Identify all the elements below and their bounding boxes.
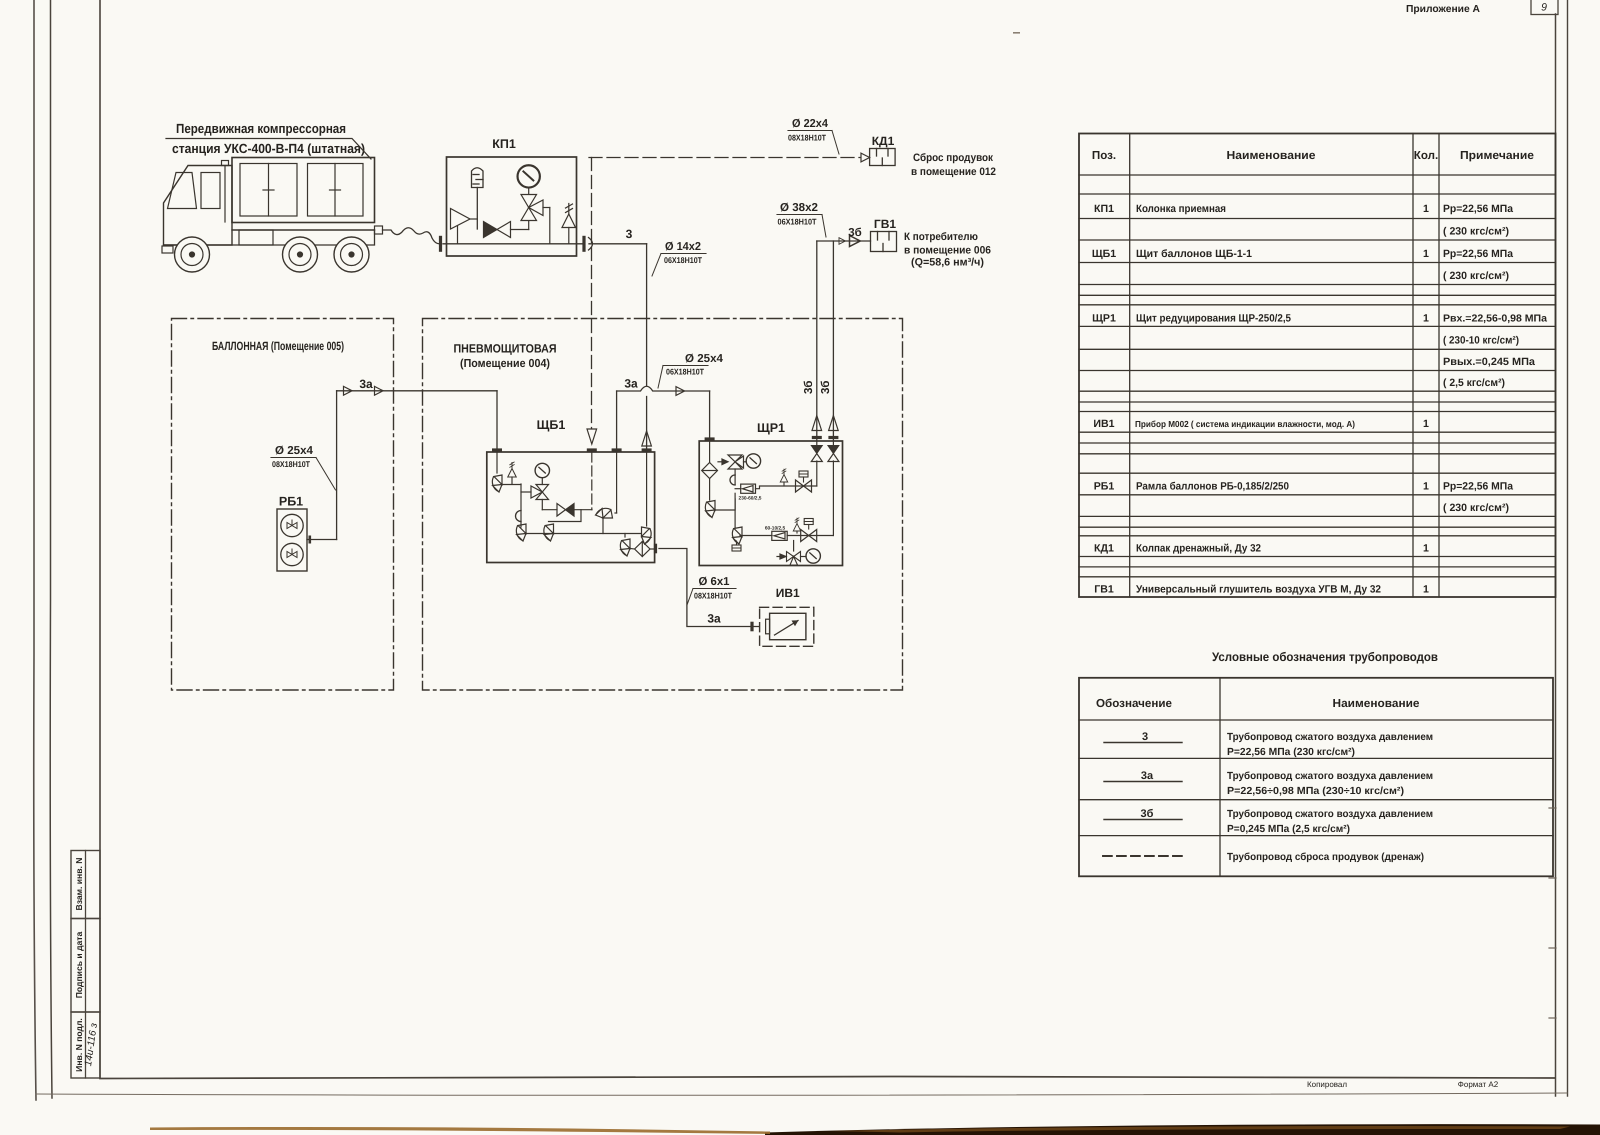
svg-text:Ø 25x4: Ø 25x4	[275, 445, 314, 457]
drain label Ø 22x4	[788, 118, 839, 154]
svg-text:Подпись и дата: Подпись и дата	[74, 931, 84, 998]
3а flow arrows	[344, 386, 353, 395]
parts table row ГВ1	[1094, 584, 1429, 596]
3а flow arrow mid	[676, 387, 685, 396]
svg-text:3а: 3а	[707, 612, 721, 626]
svg-text:Щит редуцирования ЩР-250/2,5: Щит редуцирования ЩР-250/2,5	[1136, 313, 1291, 325]
svg-text:1: 1	[1423, 584, 1429, 596]
ЩБ1 riser 3	[646, 452, 648, 526]
ЩР1 riser 1 inside	[816, 461, 818, 486]
ЩБ1 angle valve 6	[642, 527, 652, 544]
svg-text:1: 1	[1423, 248, 1429, 260]
svg-text:Обозначение: Обозначение	[1096, 697, 1173, 710]
ЩР1 stage1 relief	[780, 469, 788, 486]
parts table row ЩБ1	[1092, 248, 1513, 282]
scan bottom dark band right	[765, 1124, 1600, 1135]
ЩБ1 cap semicircle	[516, 511, 522, 522]
Ø 6x1 label	[687, 576, 736, 605]
ИВ1 wall pass	[750, 622, 753, 632]
3а pipe down into ЩР1	[709, 391, 711, 441]
КП1 gauge	[518, 165, 540, 187]
parts table row РБ1	[1094, 481, 1513, 515]
svg-text:РБ1: РБ1	[1094, 481, 1115, 493]
ЩР1 stage2 shutoff	[801, 530, 817, 542]
stamp column box: Подпись и дата	[71, 919, 100, 1013]
svg-text:КП1: КП1	[1094, 203, 1114, 215]
legend row 3	[1104, 731, 1433, 758]
chassis bottom line	[164, 230, 375, 245]
svg-text:РБ1: РБ1	[279, 495, 303, 509]
ЩБ1 inlet pipe	[496, 452, 498, 473]
КП1 outlet wall pass with socket arc	[582, 236, 585, 252]
arrow into КД1	[861, 153, 870, 162]
svg-text:Трубопровод сжатого воздуха да: Трубопровод сжатого воздуха давлением	[1227, 732, 1433, 743]
svg-text:1: 1	[1423, 313, 1429, 325]
svg-text:9: 9	[1541, 2, 1547, 14]
svg-text:Передвижная компрессорная: Передвижная компрессорная	[176, 121, 346, 136]
svg-text:Ø 25x4: Ø 25x4	[685, 353, 724, 365]
svg-text:Рвых.=0,245 МПа: Рвых.=0,245 МПа	[1443, 356, 1535, 368]
right edge binding ticks	[1549, 808, 1556, 1018]
svg-text:Рр=22,56 МПа: Рр=22,56 МПа	[1443, 248, 1513, 260]
svg-text:Рамла баллонов РБ-0,185/2/250: Рамла баллонов РБ-0,185/2/250	[1136, 481, 1289, 493]
hose from truck to КП1	[383, 228, 441, 244]
svg-text:Трубопровод сброса продувок (д: Трубопровод сброса продувок (дренаж)	[1227, 852, 1424, 863]
3б riser flow arrows	[812, 416, 822, 431]
ЩБ1 bottle panel box	[487, 452, 655, 563]
КП1 shutoff valve (filled left)	[484, 221, 529, 238]
svg-text:КД1: КД1	[1094, 543, 1114, 555]
svg-text:Трубопровод сжатого воздуха да: Трубопровод сжатого воздуха давлением	[1227, 771, 1433, 782]
ЩР1 reduction panel box	[699, 441, 842, 566]
svg-text:Взам. инв. N: Взам. инв. N	[74, 857, 84, 910]
pipe to ИВ1 from ЩБ1	[659, 549, 759, 627]
wall pass into КП1	[439, 236, 442, 252]
parts table row КД1	[1094, 543, 1429, 555]
van body	[232, 158, 375, 223]
ЩБ1 outlet filter diamond	[630, 542, 655, 557]
svg-text:ЩР1: ЩР1	[757, 421, 785, 435]
svg-text:ЩБ1: ЩБ1	[537, 418, 566, 432]
svg-text:( 2,5 кгс/см²): ( 2,5 кгс/см²)	[1443, 377, 1505, 389]
van window left	[240, 164, 297, 217]
svg-text:КД1: КД1	[872, 134, 895, 148]
3б pipe to consumer	[817, 240, 871, 242]
ЩБ1 gauge	[535, 463, 549, 477]
ЩР1 wire valve1 down	[734, 469, 736, 485]
svg-text:Копировал: Копировал	[1307, 1080, 1347, 1089]
ЩР1 stage2 pilot	[804, 519, 813, 525]
skirt box	[239, 230, 273, 245]
ЩР1 bottom gauge line	[777, 541, 806, 566]
ЩБ1 branch down from shutoff	[549, 510, 582, 522]
svg-text:ИВ1: ИВ1	[1093, 418, 1114, 430]
svg-text:Приложение А: Приложение А	[1406, 4, 1481, 15]
svg-text:Условные обозначения трубопров: Условные обозначения трубопроводов	[1212, 650, 1438, 664]
svg-text:Ø 6x1: Ø 6x1	[699, 576, 731, 588]
ЩБ1 angle valve 5	[624, 534, 626, 538]
svg-text:1: 1	[1423, 543, 1429, 555]
ЩР1 stage1 shutoff	[796, 480, 812, 492]
svg-text:06Х18Н10Т: 06Х18Н10Т	[666, 367, 704, 377]
small stray mark	[1013, 32, 1020, 34]
КД1 drain cap	[870, 149, 896, 166]
ЩБ1 wire to relief	[502, 484, 521, 486]
svg-text:Наименование: Наименование	[1227, 149, 1317, 162]
svg-text:(Помещение 004): (Помещение 004)	[460, 357, 550, 370]
svg-text:08Х18Н10Т: 08Х18Н10Т	[694, 591, 732, 601]
svg-text:Поз.: Поз.	[1092, 149, 1116, 162]
ЩБ1 relief valve	[508, 462, 517, 484]
svg-text:Ø 14x2: Ø 14x2	[665, 241, 701, 253]
svg-text:БАЛЛОННАЯ (Помещение 005): БАЛЛОННАЯ (Помещение 005)	[212, 339, 344, 353]
svg-text:60-10/2,5: 60-10/2,5	[765, 526, 786, 532]
pipe 3а from РБ1	[307, 391, 497, 544]
page number box with 9	[1531, 0, 1558, 15]
ЩБ1 riser 2	[616, 452, 618, 513]
ЩБ1 angle valve 1	[492, 475, 502, 492]
Ø 25x4 label mid	[658, 353, 724, 388]
3б riser 2	[832, 241, 834, 441]
ЩР1 inlet filter diamond	[702, 441, 718, 500]
svg-text:Колпак дренажный, Ду 32: Колпак дренажный, Ду 32	[1136, 543, 1261, 555]
svg-text:Примечание: Примечание	[1460, 149, 1535, 162]
legend row 3а	[1104, 770, 1433, 797]
ЩР1 three-way valve 1 with arrow and gauge	[718, 455, 746, 469]
pipe 3 flow arrow up at ЩБ1 entry	[642, 431, 652, 446]
page bottom edge line	[36, 1093, 1567, 1095]
ЩБ1 shutoff valve (filled right)	[557, 504, 592, 517]
cab outline	[164, 166, 233, 246]
ЩБ1 angle valve 3	[544, 524, 554, 541]
svg-text:Рр=22,56 МПа: Рр=22,56 МПа	[1443, 481, 1513, 493]
ЩР1 shutoff top 2 (filled)	[828, 446, 839, 462]
stamp column box: Инв. N подл.	[71, 1012, 100, 1078]
svg-text:( 230 кгс/см²): ( 230 кгс/см²)	[1443, 270, 1509, 282]
svg-text:Кол.: Кол.	[1414, 149, 1438, 162]
КП1 relief valve	[562, 204, 576, 244]
svg-text:Наименование: Наименование	[1333, 697, 1421, 710]
legend table grid	[1079, 678, 1553, 877]
ЩР1 stage2 outlet wire	[787, 535, 833, 537]
КП1 check valve	[451, 209, 478, 244]
Ø 38x2 label	[777, 202, 826, 237]
svg-text:в помещение 006: в помещение 006	[904, 245, 991, 257]
svg-text:ЩР1: ЩР1	[1092, 313, 1116, 325]
КП1 moisture separator cylinder	[472, 168, 484, 229]
svg-text:ИВ1: ИВ1	[776, 586, 800, 600]
РБ1 bottle rack	[277, 509, 307, 571]
3б flow arrows to ГВ1	[839, 238, 845, 245]
pipe 3 label Ø 14x2	[652, 241, 706, 276]
frame left inner border	[99, 0, 101, 1078]
ЩР1 stage2 feed wire	[734, 493, 736, 528]
ЩР1 shutoff top 1 (filled)	[811, 446, 822, 462]
rear connector	[375, 226, 383, 234]
svg-text:Р=22,56 МПа (230 кгс/см²): Р=22,56 МПа (230 кгс/см²)	[1227, 747, 1355, 758]
svg-text:1: 1	[1423, 418, 1429, 430]
svg-text:Щит баллонов ЩБ-1-1: Щит баллонов ЩБ-1-1	[1136, 248, 1252, 260]
cab side window	[201, 173, 220, 209]
legend row drain	[1103, 852, 1424, 863]
svg-text:Прибор М002 ( система индикац: Прибор М002 ( система индикации влажност…	[1135, 419, 1355, 429]
van window right	[308, 164, 364, 217]
parts table row ЩР1	[1092, 313, 1547, 390]
legend row 3б	[1104, 808, 1433, 835]
ИВ1 humidity indicator	[760, 607, 814, 646]
ЩР1 regulator 1	[735, 484, 755, 493]
svg-text:Р=22,56÷0,98 МПа (230÷10 кгс/с: Р=22,56÷0,98 МПа (230÷10 кгс/см²)	[1227, 786, 1404, 797]
svg-text:08Х18Н10Т: 08Х18Н10Т	[788, 133, 826, 143]
legend header	[1096, 697, 1420, 710]
svg-text:( 230-10 кгс/см²): ( 230-10 кгс/см²)	[1443, 335, 1519, 347]
page outer edge line	[34, 0, 36, 1100]
svg-text:3б: 3б	[848, 227, 862, 239]
svg-text:ЩБ1: ЩБ1	[1092, 248, 1116, 260]
svg-text:06Х18Н10Т: 06Х18Н10Т	[664, 255, 702, 265]
ЩБ1 wire down	[520, 484, 522, 527]
ЩР1 stage1 outlet wire	[756, 486, 817, 489]
svg-text:Рвх.=22,56-0,98 МПа: Рвх.=22,56-0,98 МПа	[1443, 314, 1547, 325]
КП1 three-way valve	[521, 195, 550, 244]
ЩР1 angle valve stage2	[732, 527, 742, 544]
3а pipe down into ЩБ1	[496, 391, 498, 452]
scan bottom band left tail	[150, 1127, 770, 1134]
drain pipe vertical (dashed) down to ЩБ1	[591, 158, 593, 429]
frame left outer border	[50, 0, 52, 1098]
svg-text:Рр=22,56 МПа: Рр=22,56 МПа	[1443, 203, 1513, 215]
truck wheels	[175, 237, 370, 272]
windshield	[168, 173, 197, 209]
svg-text:3: 3	[1142, 731, 1148, 743]
ЩР1 stage2 pilot below	[732, 545, 741, 551]
svg-text:в помещение 012: в помещение 012	[911, 166, 996, 178]
pipe 3 horizontal from КП1	[589, 243, 647, 245]
svg-text:3б: 3б	[803, 381, 815, 395]
svg-text:( 230 кгс/см²): ( 230 кгс/см²)	[1443, 502, 1509, 514]
frame bottom border	[100, 1077, 1555, 1079]
svg-text:3а: 3а	[1141, 770, 1154, 782]
svg-text:ПНЕВМОЩИТОВАЯ: ПНЕВМОЩИТОВАЯ	[454, 342, 557, 356]
svg-text:Формат А2: Формат А2	[1458, 1080, 1499, 1089]
svg-text:Трубопровод сжатого воздуха да: Трубопровод сжатого воздуха давлением	[1227, 809, 1433, 820]
stamp column box: Взам. инв. N	[71, 851, 100, 919]
ЩБ1 drain dashed inside	[591, 452, 593, 510]
ЩР1 cap semicircle	[730, 475, 735, 485]
ЩР1 regulator 2	[740, 531, 787, 540]
3а pipe ЩБ1 to ЩР1 riser	[616, 391, 618, 452]
svg-text:1: 1	[1423, 203, 1429, 215]
svg-text:3б: 3б	[1141, 808, 1154, 820]
parts table row ИВ1	[1093, 418, 1429, 430]
ЩР1 stage2 relief	[793, 518, 801, 533]
ЩР1 riser 2 inside	[832, 461, 834, 536]
svg-text:( 230 кгс/см²): ( 230 кгс/см²)	[1443, 226, 1509, 238]
3б riser 1	[816, 241, 818, 441]
truck: mobile compressor station	[162, 158, 383, 254]
svg-text:06Х18Н10Т: 06Х18Н10Т	[778, 217, 817, 227]
ЩБ1 angle valve 2	[516, 524, 526, 541]
ЩБ1 angle valve 4	[596, 508, 613, 518]
frame right outer border	[1567, 0, 1569, 1096]
truck title underline leader	[166, 139, 371, 160]
pipe 3 vertical down to ЩБ1	[646, 244, 648, 386]
parts table row КП1	[1094, 203, 1513, 238]
svg-text:Ø 22x4: Ø 22x4	[792, 118, 829, 130]
exhaust mast	[222, 161, 229, 223]
svg-text:Сброс продувок: Сброс продувок	[913, 152, 994, 164]
svg-text:ГВ1: ГВ1	[1094, 584, 1114, 596]
ГВ1 air silencer	[871, 232, 897, 252]
svg-text:3а: 3а	[359, 377, 373, 391]
drain wall pass at ЩБ1	[587, 448, 597, 451]
svg-text:(Q=58,6 нм³/ч): (Q=58,6 нм³/ч)	[911, 257, 984, 269]
КП1 main pipe	[443, 243, 584, 245]
parts table grid	[1079, 134, 1556, 598]
svg-text:станция УКС-400-В-П4 (штатная): станция УКС-400-В-П4 (штатная)	[172, 141, 365, 156]
drain pipe horizontal (dashed) to КД1	[589, 157, 860, 159]
pipe 3 wall pass at ЩБ1	[642, 448, 652, 451]
svg-text:КП1: КП1	[492, 137, 516, 151]
ЩР1 angle valve inlet	[705, 501, 715, 518]
frame right inner border	[1555, 14, 1557, 1096]
svg-text:Универсальный глушитель воздух: Универсальный глушитель воздуха УГВ М, Д…	[1136, 584, 1381, 596]
БАЛЛОННАЯ room boundary	[172, 319, 394, 691]
svg-text:К потребителю: К потребителю	[904, 231, 978, 243]
3а wall pass at ЩБ1	[492, 448, 502, 451]
svg-text:3б: 3б	[820, 381, 832, 395]
ПНЕВМОЩИТОВАЯ room boundary	[423, 319, 903, 691]
front bumper	[162, 246, 173, 253]
svg-text:08Х18Н10Т: 08Х18Н10Т	[272, 459, 310, 469]
3б riser wall passes	[812, 436, 822, 439]
ЩБ1 outlet wall pass	[654, 544, 657, 554]
svg-text:3а: 3а	[624, 377, 638, 391]
КП1 receiving column box	[447, 157, 577, 256]
РБ1 pipe label Ø 25x4	[271, 445, 336, 490]
svg-text:1: 1	[1423, 481, 1429, 493]
svg-text:230-60/2,5: 230-60/2,5	[739, 496, 762, 502]
drain flow arrow down	[587, 429, 597, 444]
parts table header	[1092, 149, 1535, 162]
svg-text:Ø 38x2: Ø 38x2	[780, 202, 818, 214]
svg-text:3: 3	[626, 227, 633, 241]
svg-text:Колонка приемная: Колонка приемная	[1136, 203, 1226, 215]
van body lower band	[232, 229, 375, 231]
ЩБ1 three-way valve	[521, 485, 557, 510]
ЩБ1 bottom bus	[526, 533, 641, 535]
3а pipe horizontal with hop over pipe 3	[617, 386, 710, 391]
svg-text:ГВ1: ГВ1	[874, 217, 896, 231]
svg-text:Р=0,245 МПа (2,5 кгс/см²): Р=0,245 МПа (2,5 кгс/см²)	[1227, 824, 1350, 835]
ЩР1 stage1 pilot	[799, 471, 808, 477]
